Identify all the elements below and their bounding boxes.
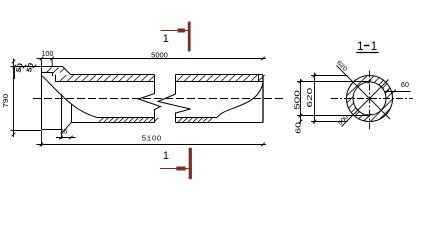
dim line 790 — [13, 59, 15, 138]
top wall end face — [55, 75, 57, 82]
tick 5100 right — [261, 143, 265, 147]
outer bottom line left piece — [72, 122, 155, 124]
section marker bottom arrow head — [176, 167, 185, 171]
diameter dim 620 diagonal line — [337, 66, 391, 120]
tick 790 top — [12, 60, 16, 64]
small dim tick a — [13, 65, 17, 69]
annulus hatch — [347, 76, 393, 122]
outer bottom line right piece — [176, 122, 264, 124]
tick at flange left — [40, 57, 44, 61]
extension 790 bottom — [11, 130, 42, 132]
section marker bottom — [160, 148, 192, 179]
extension above flange left — [41, 60, 43, 67]
tick 60 bottom — [299, 120, 303, 124]
svg-text:1: 1 — [163, 33, 169, 45]
svg-text:60: 60 — [294, 122, 302, 134]
label 790 — [2, 94, 10, 108]
svg-text:5000: 5000 — [151, 50, 168, 59]
outer top line left piece — [71, 74, 155, 76]
section extension outer top — [311, 75, 348, 77]
inner top line right piece — [176, 81, 264, 83]
tick 620 diagonal upper — [351, 80, 356, 85]
svg-text:790: 790 — [2, 94, 10, 108]
flange right face lower — [61, 94, 63, 130]
flange top edge — [42, 66, 63, 68]
svg-text:620: 620 — [306, 87, 314, 108]
tick at pipe right end — [261, 57, 265, 61]
svg-text:1: 1 — [371, 39, 378, 53]
inner top line left piece — [56, 81, 155, 83]
dim-100 right extension — [51, 60, 53, 68]
tick 25 right — [69, 136, 73, 140]
section title 1-1 — [356, 39, 378, 53]
title underline — [356, 52, 378, 54]
inner bottom line right piece — [176, 117, 218, 119]
label 500 vertical — [294, 89, 302, 110]
section marker bottom arrow line — [160, 168, 189, 170]
wall dim tick left — [385, 90, 389, 94]
bottom wall end face — [71, 105, 73, 123]
flange bottom edge — [42, 129, 62, 131]
svg-text:500: 500 — [294, 89, 302, 110]
tick 620 top — [313, 74, 317, 78]
centerline of pile — [33, 98, 283, 100]
svg-text:1: 1 — [163, 150, 169, 162]
tick 25 left — [59, 136, 63, 140]
svg-text:50: 50 — [14, 62, 24, 73]
section marker top arrow head — [178, 29, 185, 33]
break line left piece — [139, 75, 161, 123]
extension 25 left — [62, 122, 72, 139]
section extension inner top — [297, 81, 369, 83]
section marker bottom bar — [189, 148, 192, 179]
core taper curve right — [217, 83, 263, 118]
diameter dim 500 diagonal line — [342, 80, 389, 127]
small dim extension — [14, 67, 16, 80]
top wall hatch left piece — [60, 75, 155, 81]
label 60 vertical — [294, 122, 302, 134]
tick 500 diagonal lower — [355, 108, 360, 113]
section marker top — [161, 22, 191, 52]
label 620 diagonal — [335, 60, 348, 73]
small dim tick c — [33, 65, 37, 69]
tick 500 bottom — [299, 114, 303, 118]
section marker top bar — [188, 22, 191, 52]
small dim tick b — [23, 65, 27, 69]
section view — [297, 66, 413, 132]
section marker top arrow line — [161, 30, 188, 32]
wall dim 60 line — [385, 91, 411, 93]
dim line bottom 5100 — [37, 144, 267, 146]
end plate step — [42, 73, 53, 77]
outer top line right piece — [176, 74, 264, 76]
inner bottom line left piece — [97, 117, 155, 119]
bottom wall hatch right piece — [178, 118, 212, 122]
dim line top (100 + 5000) — [37, 58, 267, 60]
svg-text:25: 25 — [60, 129, 68, 136]
inner circle — [353, 82, 386, 115]
section extension outer bottom — [311, 121, 348, 123]
dim line 25 — [56, 137, 76, 139]
tick at flange right — [50, 57, 54, 61]
tick 500 diagonal upper — [379, 84, 384, 89]
core taper curve left — [42, 76, 97, 118]
label 50 b — [25, 62, 35, 73]
wall dim tick right — [392, 90, 396, 94]
title dash — [364, 45, 370, 47]
svg-text:60: 60 — [401, 80, 409, 89]
tick 5100 left — [40, 143, 44, 147]
label 500 diagonal — [337, 114, 350, 127]
tick inner bottom centerline — [368, 114, 372, 118]
top wall end joint right — [258, 75, 260, 82]
svg-text:50: 50 — [25, 62, 35, 73]
right end face — [262, 75, 264, 123]
tick inner top centerline — [368, 80, 372, 84]
outer circle — [347, 76, 393, 122]
tick 500 top — [299, 80, 303, 84]
tick 620 diagonal lower — [383, 112, 388, 117]
section extension inner bottom — [297, 115, 369, 117]
tick 620 bottom — [313, 120, 317, 124]
flange left face — [41, 67, 43, 130]
bottom wall hatch left piece — [99, 118, 158, 122]
section centerline vertical — [369, 71, 371, 132]
label 50 a — [14, 62, 24, 73]
section dim line 500/60 — [300, 79, 302, 124]
extension 5100 left — [41, 131, 43, 147]
top wall hatch right piece — [177, 75, 265, 81]
label 620 vertical — [306, 87, 314, 108]
tick 790 bottom — [12, 133, 16, 137]
break line right piece — [158, 75, 191, 123]
collar hatch — [46, 68, 65, 74]
svg-text:5100: 5100 — [142, 133, 162, 142]
svg-text:100: 100 — [42, 51, 54, 58]
extension 790 top with small dims — [11, 66, 42, 68]
svg-text:1: 1 — [357, 39, 364, 53]
section centerline horizontal — [331, 98, 413, 100]
collar chamfer — [63, 67, 71, 75]
section dim line 620 — [314, 73, 316, 124]
